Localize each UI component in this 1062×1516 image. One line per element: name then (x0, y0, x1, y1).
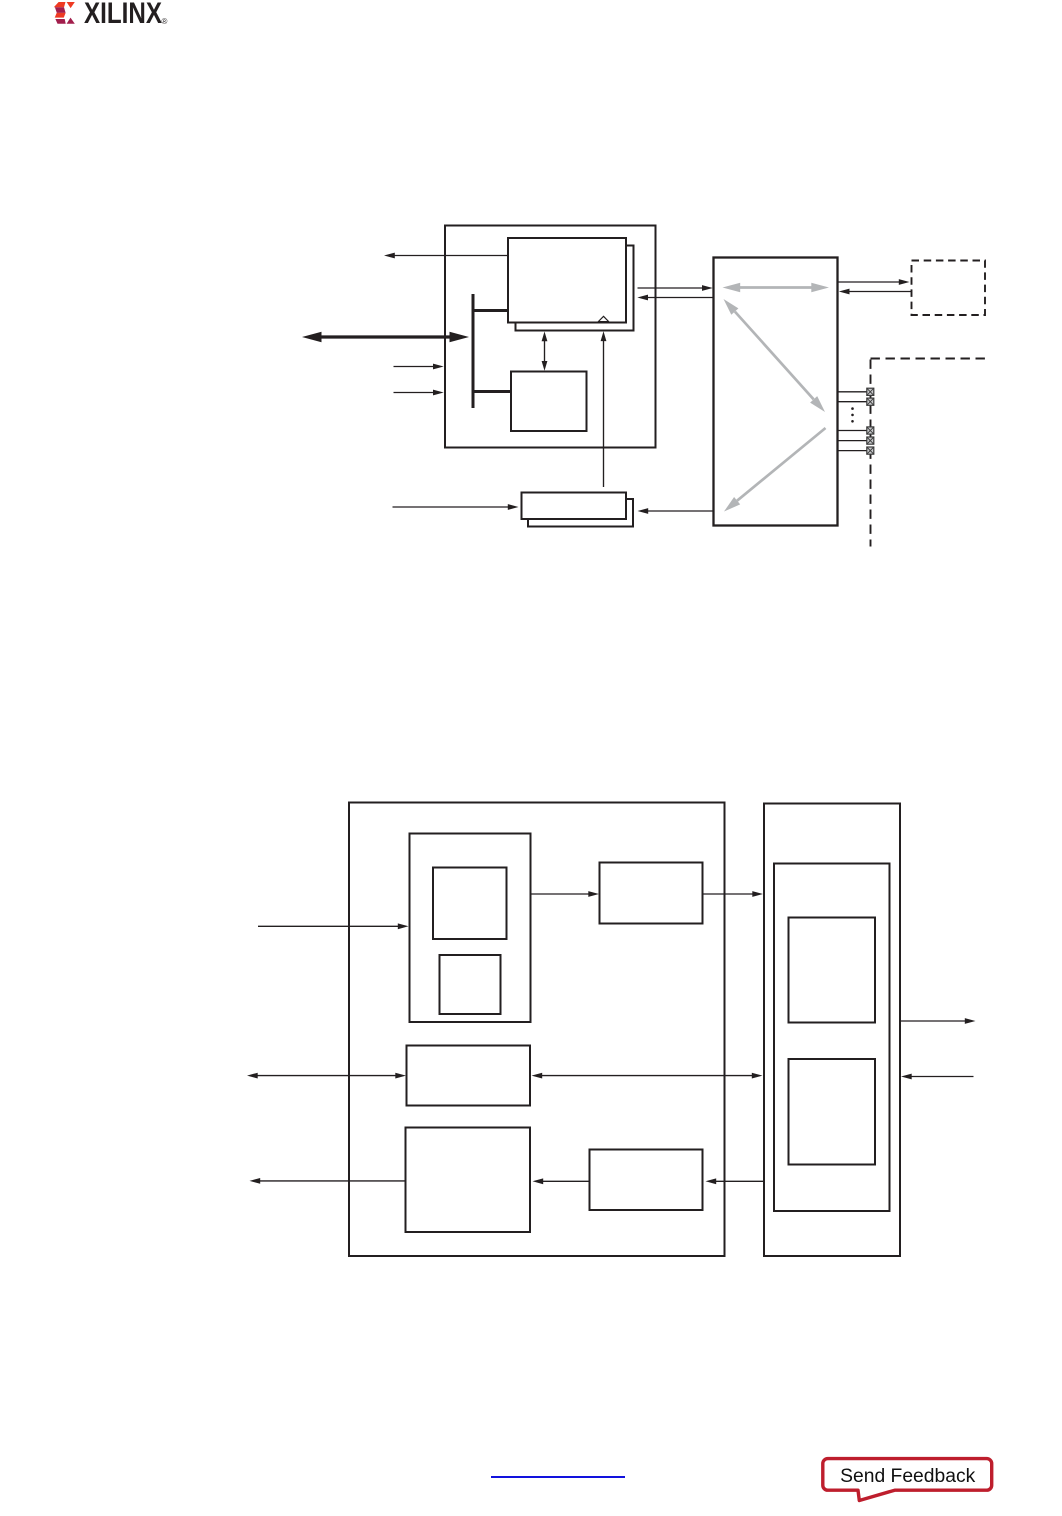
outer controller box (445, 226, 656, 448)
top diagram (0, 0, 1062, 700)
logo mark stripe 2 crimson (55, 7, 66, 13)
IO buffer connector boxes with X (867, 388, 874, 454)
top pipeline box (600, 863, 703, 924)
arrowhead into decoder box (533, 1178, 544, 1184)
logo mark stripe 4 crimson (55, 19, 65, 24)
bottom-left decoder box (406, 1128, 531, 1233)
wire left input to bottom strip box (393, 506, 510, 508)
front register box (508, 238, 626, 323)
dashed PL boundary corner lines (871, 359, 987, 547)
vertical ellipsis dots (851, 407, 854, 422)
arrowhead from dashed box into crossbar (839, 289, 850, 295)
wire outer box to crossbar (638, 287, 704, 289)
bus to control box connector (472, 390, 512, 393)
arrowhead into bottom middle box (706, 1178, 717, 1184)
arrowhead from crossbar into outer box (637, 295, 648, 301)
gray horizontal crossbar arrow (723, 283, 830, 293)
inner core box (433, 868, 507, 940)
inner aux box (440, 955, 501, 1014)
internal bus vertical line (472, 294, 475, 408)
arrowhead into upper-left container (398, 923, 409, 929)
arrowhead far-left bidir right end (395, 1073, 406, 1079)
wire input into right subsystem (911, 1076, 974, 1078)
bus to register box connector (472, 309, 509, 312)
arrowhead right subsystem output (965, 1018, 976, 1024)
wire bottom middle to decoder box (543, 1180, 590, 1182)
bottom shadow strip box (back layer) (528, 499, 633, 527)
wire from bottom strip up to register shadow box (603, 341, 605, 488)
arrowhead into dashed box (899, 279, 910, 285)
Send Feedback button (812, 1450, 1012, 1510)
arrowhead left input 2 (433, 390, 444, 396)
arrowhead top-left output (384, 253, 395, 259)
wire dashed box to crossbar (849, 291, 912, 293)
arrowhead decoder output left (250, 1178, 261, 1184)
wire crossbar to outer box (647, 297, 714, 299)
register to control bidirectional wire (544, 341, 546, 363)
arrowhead into right subsystem (right) (901, 1074, 912, 1080)
small control box (511, 372, 587, 432)
left input wire 2 (394, 392, 435, 394)
wire top pipeline box to right subsystem (703, 893, 755, 895)
arrowhead middle bidir left end (532, 1073, 543, 1079)
gray diagonal crossbar arrow (two-headed) (724, 299, 826, 412)
speech bubble outline (823, 1459, 992, 1501)
middle interface box (407, 1046, 531, 1106)
dashed PL region box (top right) (912, 261, 986, 316)
arrowhead into crossbar left (702, 285, 713, 291)
right lower lane box (789, 1059, 876, 1165)
logo mark stripe 3 orange (55, 13, 66, 18)
arrowhead crossbar wire into bottom strip box (638, 508, 649, 514)
arrowhead far-left bidir left end (247, 1073, 258, 1079)
gray diagonal crossbar arrow (single head, lower) (724, 428, 826, 512)
right subsystem box (764, 804, 900, 1257)
upper-left container box (410, 834, 531, 1023)
left input wire 1 (394, 366, 435, 368)
arrowhead into bottom strip box (508, 504, 519, 510)
shadow register box (back layer) (516, 246, 634, 331)
wire crossbar to bottom strip box (648, 510, 714, 512)
wire crossbar to dashed box (838, 281, 901, 283)
arrowhead middle bidir right end (752, 1073, 763, 1079)
right inner wrapper box (774, 864, 890, 1212)
wire far-left bidirectional (257, 1075, 397, 1077)
left subsystem box (349, 803, 725, 1257)
bottom front strip box (522, 493, 627, 520)
crossbar output stub wires (838, 392, 867, 451)
arrowhead left input 1 (433, 364, 444, 370)
bottom middle box (590, 1150, 703, 1211)
clock caret on register box (598, 316, 608, 321)
wire decoder output to left (260, 1180, 406, 1182)
arrowhead into right subsystem (top) (752, 891, 763, 897)
footer link underline (491, 1476, 625, 1477)
wire right subsystem output (900, 1020, 966, 1022)
right upper lane box (789, 918, 876, 1023)
arrowhead up into register shadow box (601, 331, 607, 341)
thick bidirectional bus arrow (302, 332, 469, 343)
logo mark bottom-right triangle crimson (67, 18, 75, 24)
logo mark stripe 1 orange (54, 2, 66, 7)
top-left output wire (394, 255, 508, 257)
wire right subsystem to bottom middle box (716, 1180, 764, 1182)
arrowhead bidir up (542, 332, 548, 342)
wire input to upper-left container (258, 925, 399, 927)
wire middle bidirectional (542, 1075, 753, 1077)
wire container to top pipeline box (531, 893, 591, 895)
logo mark top-right triangle orange (67, 2, 75, 8)
arrowhead bidir down (542, 361, 548, 371)
crossbar switch box (714, 258, 838, 526)
svg-text:Send Feedback: Send Feedback (840, 1466, 975, 1487)
arrowhead into top pipeline box (588, 891, 599, 897)
Xilinx logo (0, 0, 220, 40)
